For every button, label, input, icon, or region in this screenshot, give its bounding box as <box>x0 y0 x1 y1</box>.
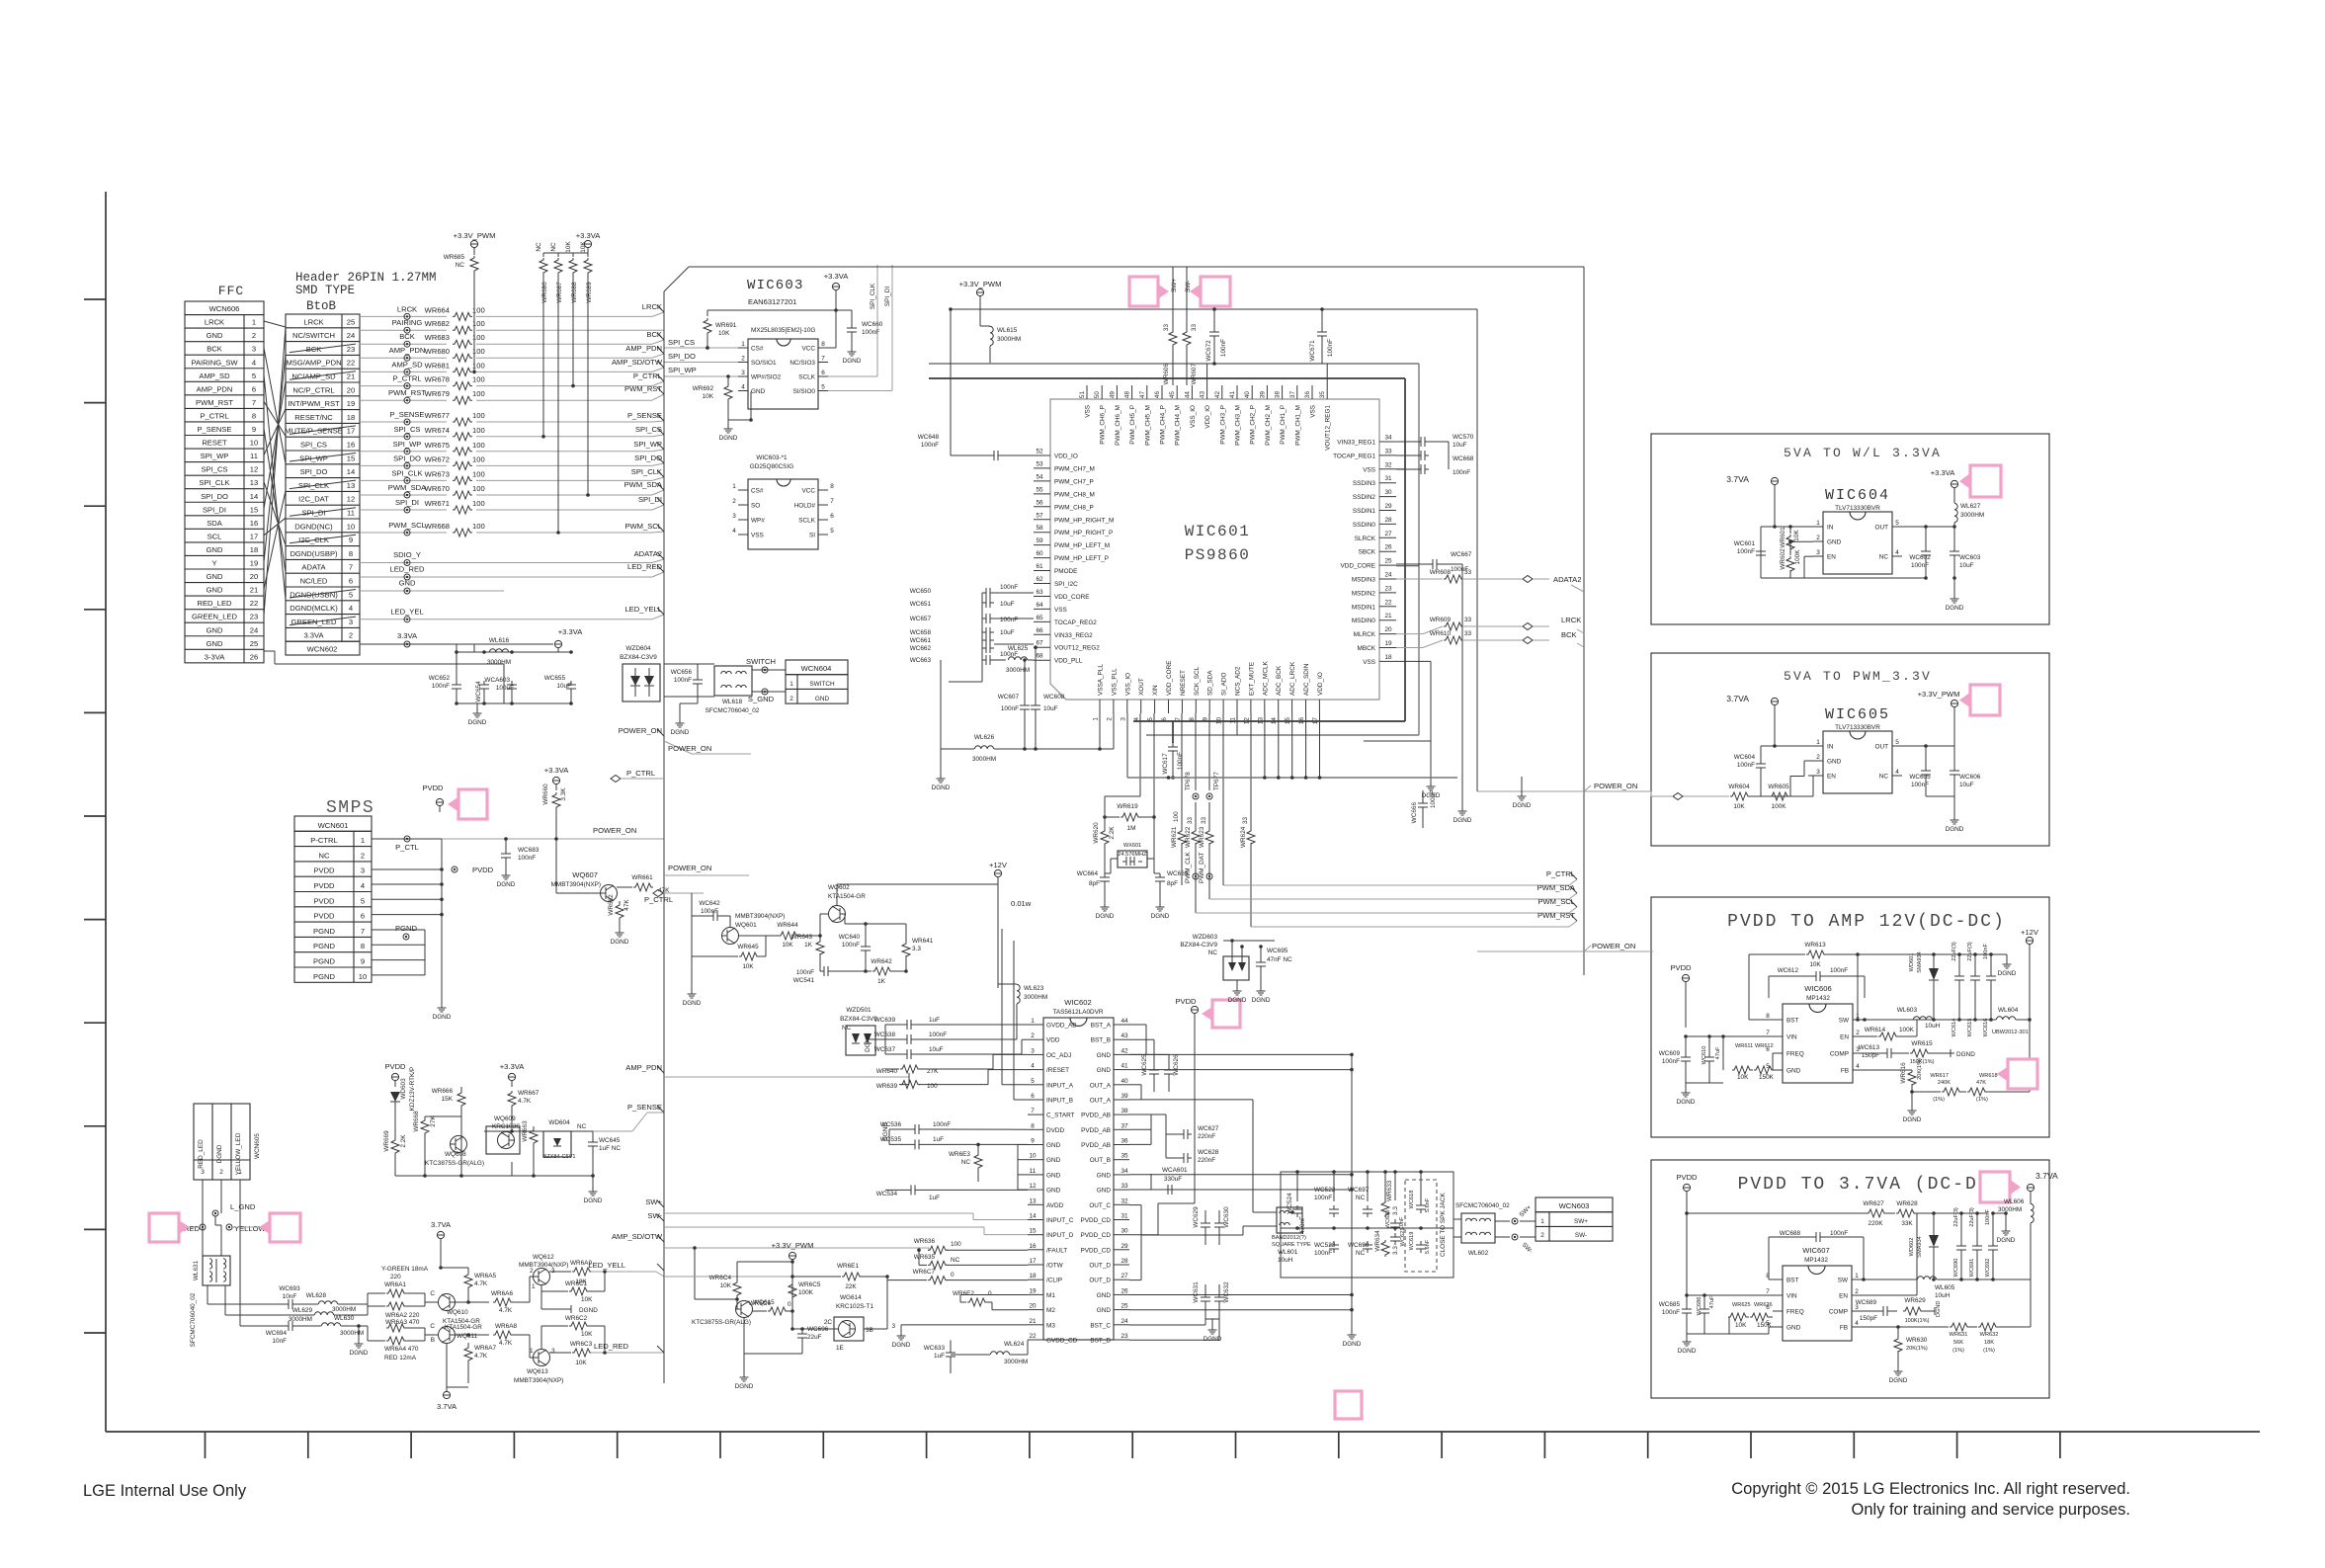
wire M3 DGND tie <box>901 1324 1028 1326</box>
resistor WR631 56K(1%) <box>1898 1326 1949 1328</box>
svg-text:WR674: WR674 <box>425 426 450 435</box>
svg-text:62: 62 <box>1036 576 1043 583</box>
svg-text:10uF: 10uF <box>1959 562 1974 569</box>
wire WQ615 emitter <box>743 1318 745 1355</box>
svg-text:SO: SO <box>751 503 760 510</box>
svg-text:SPI_CS: SPI_CS <box>201 465 227 474</box>
svg-text:46: 46 <box>1154 391 1161 399</box>
svg-text:PWM_HP_LEFT_M: PWM_HP_LEFT_M <box>1054 542 1110 549</box>
wire 3.3V rail top <box>951 308 1477 310</box>
svg-text:SW-: SW- <box>1185 281 1192 292</box>
inductor WL629 3000HM <box>314 1312 333 1315</box>
svg-text:22: 22 <box>1384 599 1392 606</box>
svg-text:WQ612: WQ612 <box>533 1254 554 1261</box>
capacitor WC656 100nF <box>697 676 699 680</box>
svg-text:/OTW: /OTW <box>1046 1263 1064 1270</box>
svg-text:MX25L8035[EM2]-10G: MX25L8035[EM2]-10G <box>751 327 815 334</box>
svg-text:4: 4 <box>361 881 365 890</box>
capacitor WC628 220nF <box>1180 1157 1184 1159</box>
svg-text:WR6A5: WR6A5 <box>474 1273 496 1279</box>
svg-text:WR662: WR662 <box>608 894 615 916</box>
svg-text:WL616: WL616 <box>489 637 510 644</box>
svg-text:WR628: WR628 <box>1896 1200 1918 1207</box>
net tag BCK <box>657 333 664 340</box>
svg-text:SW+: SW+ <box>1518 1203 1533 1218</box>
svg-text:1: 1 <box>1855 1273 1859 1279</box>
svg-text:DVDD: DVDD <box>1046 1127 1064 1134</box>
svg-text:WL606: WL606 <box>2004 1198 2025 1205</box>
svg-text:WC652: WC652 <box>429 675 451 682</box>
svg-text:VSS: VSS <box>1054 607 1067 614</box>
ground DGND SMPS <box>441 1002 443 1008</box>
svg-text:100nF: 100nF <box>1001 705 1019 712</box>
wire GND jog box B <box>1804 760 1813 762</box>
inductor WL615 3000HM <box>990 326 993 345</box>
net tag POWER_ON mid <box>1584 785 1591 791</box>
strikethrough marks on BtoB rows <box>290 344 356 353</box>
svg-text:WC633: WC633 <box>924 1345 946 1352</box>
svg-text:INPUT_D: INPUT_D <box>1046 1232 1074 1239</box>
svg-text:WC605: WC605 <box>1909 774 1931 781</box>
resistor WR6A2 220 <box>386 1302 406 1310</box>
chip WIC602 left pins 1-22 <box>1028 1024 1043 1026</box>
svg-text:26: 26 <box>250 652 258 661</box>
svg-text:VDD_CORE: VDD_CORE <box>1340 563 1375 570</box>
svg-text:WR683: WR683 <box>425 333 450 342</box>
svg-text:WR669: WR669 <box>383 1130 390 1152</box>
resistor WR669 2.2K <box>391 1138 399 1155</box>
capacitor WC603 10uF <box>1953 547 1955 551</box>
wires FFC to BtoB crossover <box>264 321 286 327</box>
resistor WR620 2.2K <box>1101 829 1109 846</box>
resistor WR666 15K <box>457 1091 465 1108</box>
resistor WR688 10K <box>572 253 574 257</box>
svg-text:WR606: WR606 <box>1163 364 1170 385</box>
svg-text:40: 40 <box>1121 1078 1128 1085</box>
svg-text:RED 12mA: RED 12mA <box>384 1355 417 1362</box>
svg-text:SWITCH: SWITCH <box>809 681 835 688</box>
svg-text:VDD_IO: VDD_IO <box>1204 405 1211 429</box>
svg-text:+12V: +12V <box>989 861 1008 869</box>
svg-text:TP677: TP677 <box>1213 772 1220 790</box>
wire WC667 gnd <box>1461 564 1463 805</box>
transistor WQ607 MMBT3904 <box>601 885 618 902</box>
svg-text:67: 67 <box>1036 640 1043 647</box>
svg-text:39: 39 <box>1259 391 1266 399</box>
svg-text:VDD_IO: VDD_IO <box>1054 454 1078 460</box>
svg-text:/CLIP: /CLIP <box>1046 1278 1062 1284</box>
svg-text:WR626: WR626 <box>1754 1302 1773 1308</box>
svg-text:XOUT: XOUT <box>1138 678 1145 696</box>
svg-text:+3.3VA: +3.3VA <box>500 1062 525 1071</box>
svg-text:27: 27 <box>1121 1273 1128 1279</box>
svg-text:1: 1 <box>1816 520 1820 527</box>
inductor WL603 10uH <box>1913 1017 1932 1020</box>
svg-text:NCS_AD2: NCS_AD2 <box>1235 666 1242 696</box>
capacitor WC632 33nF <box>1218 1293 1220 1297</box>
inductor WL624 3000HM <box>990 1352 1009 1355</box>
svg-text:8: 8 <box>361 942 365 950</box>
wire bus rail B <box>929 377 1405 379</box>
resistor WR683 100 on BCK line <box>360 343 447 345</box>
svg-text:GND: GND <box>207 625 223 634</box>
svg-text:3.3VA: 3.3VA <box>303 631 324 640</box>
svg-text:10: 10 <box>1029 1153 1037 1160</box>
svg-text:49: 49 <box>1109 391 1116 399</box>
svg-text:38: 38 <box>1275 391 1282 399</box>
resistor WR675 100 on SPI_WP line <box>360 451 447 453</box>
resistor WR673 100 on SPI_CLK line <box>360 479 447 481</box>
wire WCN605 pins down <box>202 1180 204 1256</box>
svg-text:PVDD: PVDD <box>422 784 444 792</box>
svg-text:150K: 150K <box>1759 1074 1775 1081</box>
svg-text:WC690: WC690 <box>1953 1259 1959 1278</box>
node PVDD <box>452 867 457 872</box>
svg-text:10uF: 10uF <box>1453 442 1467 449</box>
svg-text:NC: NC <box>536 242 542 252</box>
svg-text:ADATA2: ADATA2 <box>634 549 662 558</box>
svg-text:3000HM: 3000HM <box>997 336 1021 343</box>
svg-text:100nF: 100nF <box>1830 967 1848 974</box>
svg-text:M3: M3 <box>1046 1322 1055 1329</box>
svg-text:WL630: WL630 <box>334 1315 355 1322</box>
svg-text:WC625: WC625 <box>1141 1054 1148 1076</box>
wire POWER_ON mid <box>1477 790 1584 792</box>
svg-text:HOLD#: HOLD# <box>794 503 816 510</box>
svg-text:DGND: DGND <box>671 729 690 736</box>
net tag SPI_DI <box>657 498 664 505</box>
svg-text:RESET/NC: RESET/NC <box>294 413 333 422</box>
svg-text:1E: 1E <box>836 1345 844 1352</box>
chip WIC602 TAS5612LA0DVR body <box>1043 1018 1114 1340</box>
svg-text:SCK_SCL: SCK_SCL <box>1194 666 1201 696</box>
wire filter to WL602 <box>1453 1218 1461 1220</box>
svg-text:VIN: VIN <box>1786 1293 1797 1300</box>
resistor WR609 33 LRCK <box>1396 633 1423 635</box>
svg-text:WQ609: WQ609 <box>494 1115 516 1122</box>
svg-text:100nF: 100nF <box>1983 943 1989 958</box>
ground DGND WR692 <box>727 420 729 423</box>
svg-text:IN: IN <box>1827 525 1834 532</box>
power 3.7VA LED bottom <box>446 1343 448 1387</box>
svg-text:100: 100 <box>472 389 485 398</box>
resistor WR6C3 10K <box>549 1352 571 1354</box>
svg-text:10uH: 10uH <box>1278 1257 1293 1264</box>
capacitor WC630 220nF <box>1218 1219 1220 1223</box>
svg-text:100nF: 100nF <box>1314 1195 1332 1201</box>
svg-text:NC: NC <box>456 262 465 269</box>
svg-text:COMP: COMP <box>1830 1051 1849 1058</box>
svg-text:25: 25 <box>347 317 355 326</box>
svg-text:PWM_CLK: PWM_CLK <box>1185 852 1192 883</box>
svg-text:WC666: WC666 <box>1411 802 1418 824</box>
net arrow LRCK <box>1523 623 1533 630</box>
svg-text:WR639: WR639 <box>876 1083 898 1090</box>
svg-text:SCL: SCL <box>208 532 222 540</box>
svg-text:OUT_D: OUT_D <box>1089 1278 1111 1284</box>
svg-text:AMP_PDN: AMP_PDN <box>625 344 662 353</box>
svg-text:2: 2 <box>361 851 365 860</box>
svg-text:FFC: FFC <box>218 284 244 298</box>
wire WR686 drop <box>542 275 544 437</box>
svg-text:P_CTRL: P_CTRL <box>200 411 228 420</box>
resistor WR632 18K(1%) <box>1978 1323 1998 1331</box>
resistor WR678 100 on P_CTRL line <box>360 385 447 387</box>
svg-text:100: 100 <box>472 522 485 531</box>
svg-text:WR681: WR681 <box>425 361 450 370</box>
svg-text:WR630: WR630 <box>1906 1337 1928 1344</box>
svg-text:23: 23 <box>250 613 258 621</box>
inductor WL601 10uH square type <box>1277 1207 1302 1233</box>
svg-text:SSDIN1: SSDIN1 <box>1353 508 1376 515</box>
wire VSS18 to DGND <box>1396 660 1431 662</box>
page ref square PVDD SMPS <box>458 789 487 819</box>
svg-text:LRCK: LRCK <box>1561 616 1581 624</box>
svg-text:SW-: SW- <box>647 1211 662 1220</box>
page ref square box A <box>1970 465 2001 497</box>
svg-text:KDZ13V-RTK/P: KDZ13V-RTK/P <box>409 1067 416 1112</box>
node YELLOW <box>226 1224 232 1230</box>
svg-text:10uF: 10uF <box>1000 601 1015 608</box>
svg-text:PWM_CH3_M: PWM_CH3_M <box>1235 405 1242 446</box>
svg-text:VSS_IO: VSS_IO <box>1190 405 1197 428</box>
resistor WR682 100 on PAIRING line <box>360 329 447 331</box>
svg-text:PWM_CH6_M: PWM_CH6_M <box>1115 405 1121 446</box>
wire PVDD line amp <box>1129 1234 1158 1236</box>
svg-text:WP#/SIO2: WP#/SIO2 <box>751 374 782 381</box>
svg-text:WR617: WR617 <box>1930 1073 1949 1079</box>
capacitor WC629 220nF <box>1204 1219 1206 1223</box>
resistor WR6A9 10K <box>549 1271 571 1273</box>
wire 3.3VA to WCN604 region <box>456 644 457 652</box>
svg-text:7: 7 <box>1766 1030 1770 1036</box>
svg-text:2: 2 <box>732 498 736 505</box>
svg-text:DGND: DGND <box>865 1033 872 1052</box>
svg-text:47uF: 47uF <box>1715 1046 1721 1059</box>
svg-text:VSS: VSS <box>1310 405 1317 418</box>
svg-text:8: 8 <box>1766 1013 1770 1020</box>
svg-text:MSDIN3: MSDIN3 <box>1352 577 1376 584</box>
svg-text:WR645: WR645 <box>737 944 759 950</box>
svg-text:100K: 100K <box>1794 549 1801 565</box>
svg-text:WL623: WL623 <box>1024 985 1044 992</box>
svg-text:WR610: WR610 <box>1430 630 1452 637</box>
svg-text:WC610: WC610 <box>1702 1046 1707 1065</box>
svg-text:1: 1 <box>532 1283 536 1290</box>
svg-text:WL626: WL626 <box>974 734 995 741</box>
capacitor WC666 100nF <box>1422 799 1424 803</box>
svg-text:WC616: WC616 <box>1983 1019 1989 1037</box>
svg-text:ADATA2: ADATA2 <box>1553 575 1581 584</box>
svg-text:38: 38 <box>1121 1108 1128 1114</box>
svg-text:WC642: WC642 <box>699 900 720 907</box>
svg-text:WR629: WR629 <box>1904 1297 1926 1304</box>
svg-text:PVDD_AB: PVDD_AB <box>1081 1113 1111 1119</box>
svg-text:5.6nF: 5.6nF <box>1425 1239 1431 1254</box>
node SWITCH <box>762 667 768 673</box>
box outline PVDD TO AMP 12V <box>1651 897 2049 1137</box>
transistor WQ611 KTA1504-GR <box>439 1327 456 1344</box>
svg-text:29: 29 <box>1384 503 1392 510</box>
svg-text:DGND: DGND <box>497 881 516 888</box>
svg-text:WQ607: WQ607 <box>572 870 598 879</box>
inductor WL618 <box>714 666 752 696</box>
svg-text:DGND: DGND <box>843 358 862 365</box>
svg-text:PVDD TO 3.7VA (DC-DC): PVDD TO 3.7VA (DC-DC) <box>1738 1175 2004 1195</box>
svg-text:NC: NC <box>1356 1250 1366 1257</box>
svg-text:LRCK: LRCK <box>642 302 662 311</box>
inductor WL605 10uH <box>1917 1277 1936 1279</box>
resistor WR616 20K(1%) <box>1908 1070 1916 1087</box>
svg-text:LED_YELL: LED_YELL <box>588 1261 625 1270</box>
svg-text:SFCMC706040_02: SFCMC706040_02 <box>190 1292 197 1347</box>
svg-text:33: 33 <box>1121 1183 1128 1190</box>
svg-text:GND: GND <box>207 331 223 340</box>
net arrow BCK <box>1523 637 1533 644</box>
svg-text:35: 35 <box>1121 1153 1128 1160</box>
svg-text:PGND: PGND <box>395 924 417 933</box>
svg-text:WR6C6: WR6C6 <box>749 1300 772 1307</box>
svg-text:WL603: WL603 <box>1897 1007 1918 1014</box>
svg-text:P_CTRL: P_CTRL <box>633 371 662 380</box>
svg-text:LED_YELL: LED_YELL <box>624 605 662 614</box>
svg-text:SDIO_Y: SDIO_Y <box>393 550 421 559</box>
svg-text:PWM_CH7_P: PWM_CH7_P <box>1054 478 1094 485</box>
wire WR688 drop <box>572 275 574 386</box>
wire PVDD_AB pins <box>1129 1114 1166 1115</box>
svg-text:DGND: DGND <box>1946 605 1964 612</box>
svg-text:2: 2 <box>1855 1288 1859 1295</box>
svg-text:WR6A4 470: WR6A4 470 <box>384 1346 419 1353</box>
svg-text:100nF: 100nF <box>1000 617 1018 623</box>
svg-text:3: 3 <box>1031 1047 1035 1054</box>
svg-text:6: 6 <box>821 370 825 376</box>
resistor WR661 47K <box>617 886 632 888</box>
svg-text:WR6A6: WR6A6 <box>491 1290 513 1297</box>
svg-text:2C: 2C <box>824 1319 833 1326</box>
svg-text:48: 48 <box>1124 391 1131 399</box>
wire P_SENSE out <box>593 1130 632 1132</box>
svg-text:AVDD: AVDD <box>1046 1202 1064 1209</box>
svg-text:PVDD_AB: PVDD_AB <box>1081 1142 1111 1149</box>
ground DGND WQ615 <box>743 1354 745 1371</box>
svg-text:FB: FB <box>1840 1325 1848 1332</box>
svg-text:24.576MHZ: 24.576MHZ <box>1118 852 1147 858</box>
wire POWER_ON to box B <box>1584 790 1651 792</box>
svg-text:10uF: 10uF <box>556 683 571 690</box>
node P_CTL <box>372 838 442 840</box>
svg-text:39: 39 <box>1121 1093 1128 1100</box>
resistor WR645 10K <box>739 952 759 960</box>
svg-text:P_SENSE: P_SENSE <box>197 425 231 434</box>
resistor WR635 NC <box>928 1261 948 1269</box>
ground DGND P_SENSE <box>592 1176 594 1186</box>
svg-text:DGND: DGND <box>611 939 629 946</box>
svg-text:SPI_WP: SPI_WP <box>668 366 697 374</box>
capacitor WC604 100nF <box>1760 760 1762 764</box>
resistor WR668 100 on PWM_SCL line <box>360 532 447 534</box>
svg-text:61: 61 <box>1036 563 1043 570</box>
wire WQ614 output <box>864 1328 887 1330</box>
svg-text:WR679: WR679 <box>425 389 450 398</box>
capacitor WC667 100nF <box>1429 563 1433 565</box>
svg-text:SW+: SW+ <box>1171 279 1178 292</box>
svg-text:WC628: WC628 <box>1198 1149 1219 1156</box>
svg-text:AMP_PDN: AMP_PDN <box>625 1063 662 1072</box>
svg-text:WR661: WR661 <box>631 874 653 881</box>
svg-text:3: 3 <box>1816 549 1820 556</box>
wire EN box D <box>1852 1294 1917 1296</box>
chip WIC601 PS9860 body <box>1050 399 1379 700</box>
svg-text:WR677: WR677 <box>425 411 450 420</box>
connector WCN605 table <box>194 1104 250 1180</box>
svg-text:SPI_WP: SPI_WP <box>393 440 422 449</box>
svg-text:PWM_CH2_P: PWM_CH2_P <box>1250 405 1257 445</box>
resistor WR642 1K <box>872 967 892 975</box>
svg-text:OUT: OUT <box>1875 525 1889 532</box>
svg-text:WR620: WR620 <box>1093 822 1100 844</box>
svg-text:GND: GND <box>1786 1068 1801 1075</box>
text POWER_ON boundary tag <box>657 729 664 736</box>
resistor WR668 27K <box>421 1118 429 1135</box>
page ref square bottom middle <box>1335 1391 1362 1419</box>
capacitor WC686 47uF <box>1703 1305 1705 1309</box>
svg-text:1uF NC: 1uF NC <box>599 1145 621 1152</box>
svg-text:20K(1%): 20K(1%) <box>1917 1058 1923 1080</box>
svg-text:SW-: SW- <box>1575 1232 1587 1239</box>
svg-text:GND: GND <box>1097 1067 1112 1074</box>
svg-text:8: 8 <box>252 411 256 420</box>
svg-text:WC650: WC650 <box>910 588 932 595</box>
svg-text:56K: 56K <box>1953 1340 1963 1346</box>
svg-text:31: 31 <box>1384 475 1392 482</box>
svg-text:WC627: WC627 <box>1198 1125 1219 1132</box>
capacitor WC606 10uF <box>1953 767 1955 771</box>
wire rail 787 <box>1127 777 1457 779</box>
svg-text:SPI_WP: SPI_WP <box>633 440 662 449</box>
svg-text:/RESET: /RESET <box>1046 1067 1069 1074</box>
svg-text:CLOSE TO SPK JACK: CLOSE TO SPK JACK <box>1440 1193 1447 1257</box>
svg-text:240K: 240K <box>1938 1080 1951 1086</box>
svg-text:GND: GND <box>751 388 766 395</box>
svg-text:WC671: WC671 <box>1309 340 1316 362</box>
svg-text:PAIRING: PAIRING <box>392 318 423 327</box>
svg-text:WC688: WC688 <box>1780 1230 1801 1237</box>
svg-text:FB: FB <box>1841 1068 1849 1075</box>
net tag PWM_RST <box>657 387 664 394</box>
capacitor WC640 100nF <box>865 943 867 947</box>
capacitor WC605 100nF <box>1925 767 1927 771</box>
wire INPUT_A/B from bus <box>1002 1084 1028 1086</box>
svg-text:+3.3VA: +3.3VA <box>544 766 569 775</box>
net tag SPI_CS <box>657 428 664 435</box>
svg-text:GND: GND <box>207 586 223 595</box>
svg-text:20: 20 <box>1029 1303 1037 1310</box>
net tag P_CTRL right <box>1570 872 1577 879</box>
wire AMP_SD line <box>664 1247 929 1249</box>
svg-text:2: 2 <box>530 1268 534 1275</box>
resistor WR610 33 BCK <box>1396 647 1423 649</box>
svg-text:WC655: WC655 <box>544 675 566 682</box>
svg-text:PWM_RST: PWM_RST <box>196 398 233 407</box>
svg-text:3000HM: 3000HM <box>340 1330 364 1337</box>
svg-text:PWM_CH1_P: PWM_CH1_P <box>1280 405 1287 445</box>
svg-text:WC608: WC608 <box>1043 694 1065 701</box>
svg-text:7: 7 <box>821 356 825 363</box>
svg-text:NC: NC <box>577 1123 587 1130</box>
ground DGND comp box C <box>1949 1052 1954 1054</box>
svg-text:RED_LED: RED_LED <box>197 599 232 608</box>
